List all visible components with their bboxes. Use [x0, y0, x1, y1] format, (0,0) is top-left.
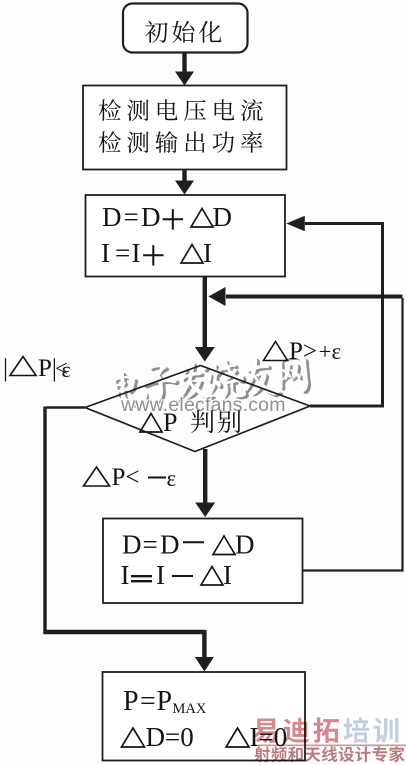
svg-text:=: = [115, 238, 130, 268]
final box: P=Pmax, dD=0, dI=0 [103, 672, 306, 761]
svg-text:D: D [141, 202, 161, 232]
svg-text:I: I [156, 560, 165, 590]
svg-text:MAX: MAX [173, 701, 207, 717]
arrow: detect -> D=D+dD [182, 170, 186, 183]
arrow: init -> detect [182, 53, 186, 74]
svg-text:P>: P> [289, 338, 317, 365]
feedback loop from D=D-dD re-entering main line (junction arrow) [226, 295, 403, 299]
svg-text:I: I [132, 238, 141, 268]
svg-text:I: I [223, 560, 232, 590]
svg-text:I: I [121, 560, 130, 590]
left branch |dP|<e: diamond -> bottom box [46, 406, 85, 409]
svg-text:|: | [3, 355, 8, 382]
svg-text:P: P [157, 686, 173, 717]
svg-text:D: D [160, 530, 180, 560]
watermark: grey elecfans logo [111, 353, 312, 410]
label dP>+e [264, 342, 288, 361]
svg-text:=: = [143, 530, 158, 560]
process box: D=D+dD / I=I+dI [86, 195, 286, 277]
process box: D=D-dD / I=I-dI [103, 519, 303, 604]
svg-text:D: D [122, 530, 142, 560]
svg-text:=: = [140, 686, 156, 717]
svg-text:ε: ε [167, 466, 177, 491]
label |dP|<e [3, 355, 8, 382]
thick flow line: box3 -> junction -> diamond [203, 277, 207, 349]
svg-text:I: I [101, 238, 110, 268]
svg-text:D=0: D=0 [146, 722, 194, 752]
decision diamond [85, 366, 310, 452]
svg-text:P: P [163, 408, 177, 437]
label dP<-e [84, 467, 110, 486]
svg-text:D: D [213, 202, 233, 232]
process box: 检测电压电流/检测输出功率 [83, 86, 287, 170]
svg-text:D: D [102, 202, 122, 232]
svg-text:=: = [124, 202, 139, 232]
feedback loop far right: box4 -> junction [303, 298, 403, 571]
svg-text:+ε: +ε [319, 339, 342, 364]
svg-text:I: I [203, 238, 212, 268]
svg-text:D: D [235, 530, 255, 560]
svg-text:P: P [123, 686, 139, 717]
start/end box: 初始化 [123, 4, 248, 53]
diamond label ΔP 判别 [140, 414, 162, 433]
svg-text:P<: P< [112, 464, 140, 491]
watermark: red yiditop logo [252, 717, 406, 762]
feedback loop right: diamond -> box3 (dP>+e) [305, 224, 383, 407]
thick flow: diamond -> box4 (dP<-e) [203, 449, 207, 503]
svg-text:ε: ε [62, 357, 71, 382]
